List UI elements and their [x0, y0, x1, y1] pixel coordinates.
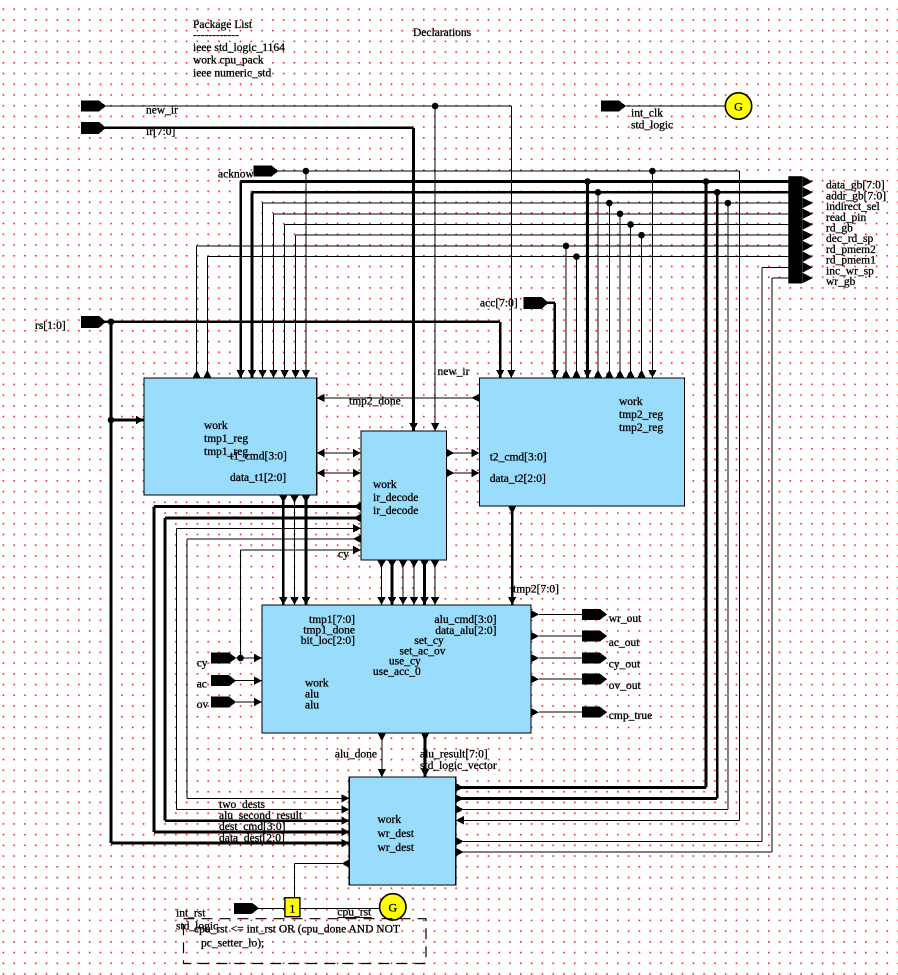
const box 1: [285, 898, 300, 917]
svg-text:tmp1_reg: tmp1_reg: [204, 433, 248, 445]
wire rd_pmem1 horizontal: [207, 256, 788, 258]
wire ov to alu: [235, 701, 262, 703]
svg-text:alu: alu: [305, 700, 319, 712]
wire read_pin vertical to tmp1_reg: [273, 214, 275, 378]
wire acknow drop to wr_dest: [738, 171, 740, 820]
wire t2_cmd: [447, 452, 480, 454]
wire vertical x=609.3 to tmp2_reg top: [608, 203, 610, 378]
wire wr_dest right y=841.4: [456, 840, 762, 842]
svg-text:wr_out: wr_out: [609, 613, 642, 625]
wire rd_pmem1 vertical from tmp1_reg: [206, 257, 208, 378]
wire alu_result: [424, 733, 427, 777]
junction data_gb-wr_dest: [703, 178, 710, 185]
wire data_gb vertical to wr_dest: [705, 182, 708, 788]
port ac_out: [531, 632, 539, 640]
wire tmp1-alu x=283.3: [282, 495, 285, 605]
block alu: [262, 605, 531, 733]
svg-text:ov_out: ov_out: [609, 680, 642, 692]
svg-text:cy: cy: [197, 658, 208, 670]
block ir_decode: [361, 431, 447, 560]
port ir[7:0]: [81, 122, 106, 134]
svg-text:work: work: [378, 814, 402, 826]
wire data_gb[7:0] horizontal: [241, 180, 789, 183]
wire wr_dest right y=798.5: [456, 797, 717, 800]
wire addr_gb[7:0] vertical to tmp1_reg: [251, 192, 254, 378]
arrow into wr_dest left y=831.9: [341, 828, 349, 836]
wire data_gb[7:0] vertical to tmp1_reg: [239, 182, 242, 378]
svg-text:cy: cy: [338, 549, 349, 561]
port cmp_true: [531, 708, 539, 716]
port ov_out: [531, 675, 539, 683]
svg-text:tmp2[7:0]: tmp2[7:0]: [513, 583, 559, 595]
wire rs into wr_dest: [111, 842, 349, 845]
wire ac to alu: [235, 680, 262, 682]
wire cpu_rst: [300, 907, 380, 909]
wire ir bus: [105, 126, 414, 129]
wire new_ir: [105, 105, 511, 107]
svg-text:int_clk: int_clk: [631, 108, 663, 120]
svg-text:ieee numeric_std: ieee numeric_std: [193, 67, 271, 79]
svg-text:new_ir: new_ir: [438, 366, 470, 378]
wire indirect_sel vertical to tmp1_reg: [262, 203, 264, 378]
wire rd_gb horizontal: [285, 223, 789, 225]
wire dest_cmd[3:0] loop: [165, 517, 361, 520]
svg-text:data_alu[2:0]: data_alu[2:0]: [435, 625, 496, 637]
svg-text:Declarations: Declarations: [413, 27, 472, 39]
wire ir_decode-alu x=381.5: [381, 560, 383, 605]
svg-text:wr_gb: wr_gb: [826, 276, 856, 288]
wire data_t1: [317, 472, 361, 474]
wire wr_dest right y=820.3: [456, 819, 740, 821]
wire addr_gb vertical to wr_dest: [716, 192, 719, 798]
wire addr_gb[7:0] horizontal: [252, 191, 788, 194]
wire rd_gb vertical to tmp1_reg: [284, 224, 286, 378]
wire wr_dest right y=852.1: [456, 851, 772, 853]
wire vertical x=630.6 to tmp2_reg top: [630, 224, 632, 377]
svg-text:two_dests: two_dests: [219, 799, 266, 811]
svg-text:acknow: acknow: [218, 168, 254, 180]
svg-text:G: G: [734, 100, 743, 114]
svg-text:wr_dest: wr_dest: [378, 842, 415, 854]
svg-text:data_dest[2:0]: data_dest[2:0]: [219, 832, 285, 844]
block tmp1_reg: [144, 378, 317, 495]
wire ir bus drop to ir_decode: [412, 128, 415, 431]
port int_clk: [601, 101, 626, 112]
svg-text:------------: ------------: [193, 30, 239, 42]
block wr_dest: [349, 777, 455, 885]
wire vertical x=598.0 to tmp2_reg top: [597, 192, 599, 377]
wire wr_dest right y=787.4: [456, 786, 706, 789]
junction rs-tmp1: [108, 417, 115, 424]
svg-text:dest_cmd[3:0]: dest_cmd[3:0]: [219, 821, 285, 833]
svg-text:cmp_true: cmp_true: [609, 710, 652, 722]
svg-text:work: work: [619, 396, 643, 408]
svg-text:int_rst: int_rst: [176, 908, 206, 920]
wire acknow: [278, 170, 739, 172]
wire cy to alu: [235, 657, 262, 659]
wire int_rst: [258, 907, 285, 909]
svg-text:std_logic: std_logic: [631, 120, 673, 132]
junction addr_gb-wr_dest: [714, 189, 721, 196]
svg-text:1: 1: [289, 902, 295, 916]
svg-text:t2_cmd[3:0]: t2_cmd[3:0]: [490, 452, 547, 464]
svg-text:cy_out: cy_out: [609, 659, 641, 671]
wire wr_dest to const box: [295, 863, 350, 865]
wire ir_decode-alu x=392.0: [391, 560, 394, 605]
wire rs drop to tmp2_reg: [499, 322, 502, 378]
wire wr_gb vertical: [771, 278, 773, 852]
wire vertical x=641.5 to tmp2_reg top: [641, 235, 643, 378]
block tmp2_reg: [480, 378, 685, 506]
junction indirect_sel-wr_dest: [725, 200, 732, 207]
wire rd_pmem2 vertical from tmp1_reg: [196, 246, 198, 378]
svg-text:tmp2_done: tmp2_done: [349, 396, 401, 408]
svg-text:pc_setter_lo);: pc_setter_lo);: [201, 937, 264, 949]
svg-text:alu_result[7:0]: alu_result[7:0]: [420, 749, 488, 761]
process dashed box: [184, 919, 427, 964]
svg-text:work cpu_pack: work cpu_pack: [193, 55, 264, 67]
port new_ir: [81, 101, 106, 112]
wire indirect_sel vertical to wr_dest: [727, 203, 729, 809]
wire dec_rd_sp horizontal: [296, 234, 789, 236]
svg-text:cpu_rst: cpu_rst: [337, 906, 372, 918]
svg-text:bit_loc[2:0]: bit_loc[2:0]: [301, 635, 355, 647]
svg-text:std_logic_vector: std_logic_vector: [420, 760, 497, 772]
svg-text:tmp2_reg: tmp2_reg: [619, 409, 663, 421]
svg-text:work: work: [373, 479, 397, 491]
arrow into wr_dest left y=820.7: [341, 817, 349, 825]
wire tmp2 bus to alu: [511, 506, 514, 605]
svg-text:alu_second_result: alu_second_result: [219, 810, 303, 822]
arrow into wr_dest left y=798.3: [341, 794, 349, 802]
wire vertical x=576.5 to tmp2_reg top: [576, 257, 578, 378]
junction acknow-tmp2: [649, 168, 656, 175]
svg-text:data_t1[2:0]: data_t1[2:0]: [230, 472, 286, 484]
junction new_ir: [432, 103, 439, 110]
wire alu_done: [381, 733, 383, 777]
wire new_ir drop to tmp2_reg: [510, 106, 512, 378]
output port column (10 ports): [788, 176, 802, 283]
wire ir_decode-alu x=435.0: [434, 560, 436, 605]
svg-text:alu_done: alu_done: [335, 749, 377, 761]
wire ir_decode-alu x=403.0: [402, 560, 404, 605]
wire rs vertical left: [110, 322, 113, 843]
svg-text:ac_out: ac_out: [609, 637, 640, 649]
port cy_out: [531, 654, 539, 662]
wire indirect_sel horizontal: [263, 202, 789, 204]
svg-text:rs[1:0]: rs[1:0]: [35, 320, 66, 332]
wire wr_gb horizontal: [772, 277, 788, 279]
wire rs horizontal: [105, 320, 500, 323]
wire new_ir drop to ir_decode: [434, 106, 436, 431]
wire wr_dest right y=809.4: [456, 808, 728, 810]
svg-text:wr_dest: wr_dest: [378, 828, 415, 840]
wire rd_pmem2 horizontal: [197, 245, 789, 247]
wire ir_decode-alu x=424.5: [423, 560, 426, 605]
arrow into wr_dest left y=809.5: [341, 805, 349, 813]
svg-text:data_t2[2:0]: data_t2[2:0]: [490, 473, 546, 485]
svg-text:acc[7:0]: acc[7:0]: [480, 298, 518, 310]
wire read_pin horizontal: [274, 213, 789, 215]
wire ir_decode-alu x=414.0: [413, 560, 415, 605]
svg-text:work: work: [204, 420, 228, 432]
wire rs branch to tmp1_reg: [111, 419, 144, 422]
wire data_dest[2:0] loop: [154, 505, 361, 508]
svg-text:ac: ac: [197, 679, 207, 691]
global G cpu_rst: [380, 894, 406, 920]
junction acknow-tmp1: [303, 168, 310, 175]
svg-text:ir_decode: ir_decode: [373, 492, 418, 504]
global G int_clk: [725, 93, 751, 119]
wire tmp1-alu x=294.5: [294, 495, 296, 605]
wire tmp1-alu x=306.0: [305, 495, 308, 605]
wire vertical x=566.0 to tmp2_reg top: [565, 246, 567, 378]
wire data_t2: [447, 472, 480, 474]
wire inc_wr_sp vertical: [761, 267, 763, 841]
svg-text:cpu_rst <= int_rst OR (cpu_don: cpu_rst <= int_rst OR (cpu_done AND NOT: [194, 923, 400, 935]
wire acknow drop to tmp2_reg: [651, 171, 653, 378]
svg-text:use_acc_0: use_acc_0: [373, 666, 421, 678]
wire dec_rd_sp vertical to tmp1_reg: [295, 235, 297, 378]
port wr_out: [531, 610, 539, 618]
svg-text:tmp2_reg: tmp2_reg: [619, 422, 663, 434]
junction rs: [108, 319, 115, 326]
svg-text:t1_cmd[3:0]: t1_cmd[3:0]: [230, 451, 287, 463]
wire cy up to ir_decode: [240, 550, 242, 658]
junction cy: [237, 655, 244, 662]
wire acc: [548, 301, 555, 304]
wire inc_wr_sp horizontal: [762, 266, 789, 268]
wire tmp2_done: [317, 397, 480, 399]
wire vertical x=620.0 to tmp2_reg top: [619, 214, 621, 378]
svg-text:ov: ov: [197, 699, 209, 711]
wire t1_cmd: [317, 452, 361, 454]
svg-text:ir_decode: ir_decode: [373, 505, 418, 517]
wire int_clk: [625, 105, 725, 107]
arrow into wr_dest left y=843.1: [341, 839, 349, 847]
wire alu_second_result loop: [177, 527, 362, 529]
svg-text:G: G: [388, 900, 397, 914]
wire acknow drop to tmp1_reg: [305, 171, 307, 378]
wire two_dests loop: [187, 538, 361, 540]
svg-text:ieee std_logic_1164: ieee std_logic_1164: [193, 42, 285, 54]
wire vertical x=587.5 to tmp2_reg top: [586, 182, 589, 378]
